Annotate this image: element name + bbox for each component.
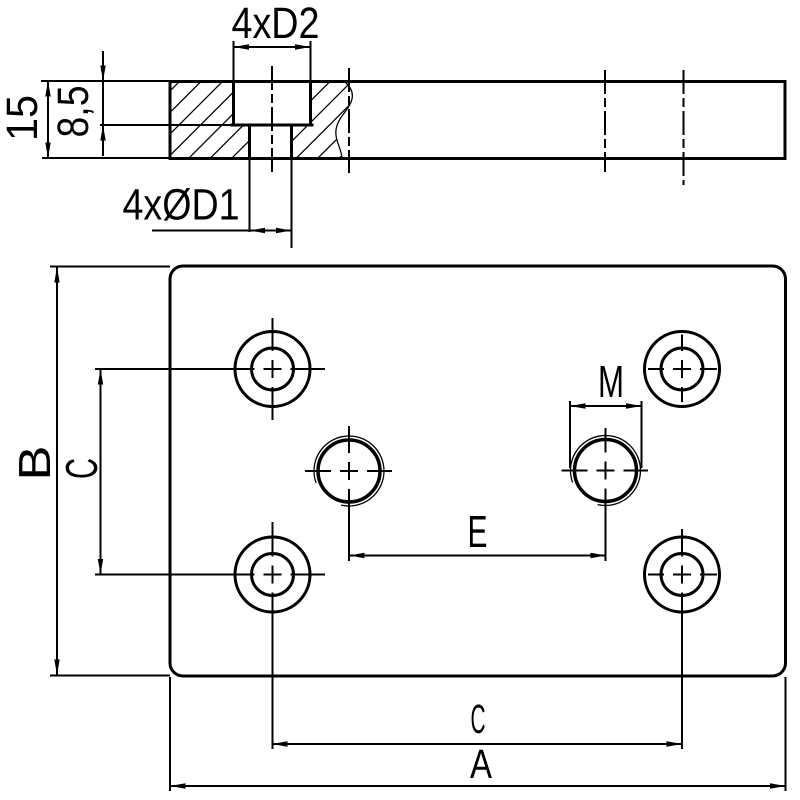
threaded hole left: thread crest thin arc [314, 436, 384, 506]
centerline of sectioned hole x=272 [271, 66, 273, 173]
svg-text:B: B [9, 446, 60, 481]
threaded hole left: core circle [318, 440, 380, 502]
centerline of middle hole x=349 [348, 68, 350, 173]
counterbored hole top-right: outer circle [645, 332, 720, 407]
through hole D1 walls [250, 125, 292, 159]
crosshair bottom-right hole (vertical extends to C dim) [648, 574, 664, 576]
svg-text:A: A [470, 741, 493, 787]
counterbored hole top-right: inner circle [661, 348, 703, 390]
svg-text:C: C [471, 696, 486, 742]
counterbored hole bottom-right: inner circle [661, 554, 703, 596]
svg-text:E: E [468, 506, 488, 557]
crosshair middle-right hole (vertical extends to E dim) [562, 470, 588, 472]
hatched cut area left of counterbore [170, 82, 250, 159]
svg-text:C: C [56, 458, 107, 479]
svg-text:15: 15 [0, 95, 47, 141]
crosshair bottom-left hole (vertical extends to C dim) [95, 574, 255, 576]
dimension E (horizontal middle hole spacing) [349, 555, 606, 557]
crosshair top-left hole [95, 368, 255, 370]
dimension B (plate height) [50, 266, 170, 268]
dimension C (horizontal hole spacing) [272, 743, 682, 745]
counterbored hole bottom-left: inner circle [252, 554, 294, 596]
dimension A (plate width) [169, 677, 171, 791]
centerline x=683.5 [683, 70, 685, 185]
counterbored hole bottom-left: outer circle [235, 537, 310, 612]
counterbored hole top-left: outer circle [235, 332, 310, 407]
plate outline (section) [170, 82, 785, 159]
counterbored hole bottom-right: outer circle [645, 537, 720, 612]
svg-text:4xD2: 4xD2 [232, 0, 320, 48]
dimension 15 (plate thickness) [41, 80, 170, 82]
hatched cut area right of counterbore up to break line [292, 82, 353, 159]
svg-text:4xØD1: 4xØD1 [123, 181, 240, 230]
threaded hole right: core circle [575, 440, 637, 502]
dimension C (vertical hole spacing) [100, 369, 102, 575]
counterbored hole top-left: inner circle [252, 348, 294, 390]
counterbore D2 walls and shoulder [232, 82, 312, 126]
svg-text:8,5: 8,5 [49, 86, 98, 138]
plan view: plate outline rounded rect [170, 266, 786, 676]
dimension 4xD2 (counterbore dia) [233, 41, 235, 81]
threaded hole right: thread crest thin arc [570, 435, 640, 505]
centerline x=605 [604, 70, 606, 172]
dimension 8,5 (counterbore depth) [100, 124, 234, 126]
crosshair middle-left hole (vertical extends to E dim) [305, 470, 331, 472]
break line (freehand) [336, 82, 353, 159]
dimension M (thread size) [569, 401, 571, 468]
dimension 4xØD1 (through hole dia) [249, 159, 251, 232]
crosshair top-right hole [648, 368, 664, 370]
svg-text:M: M [598, 356, 624, 407]
